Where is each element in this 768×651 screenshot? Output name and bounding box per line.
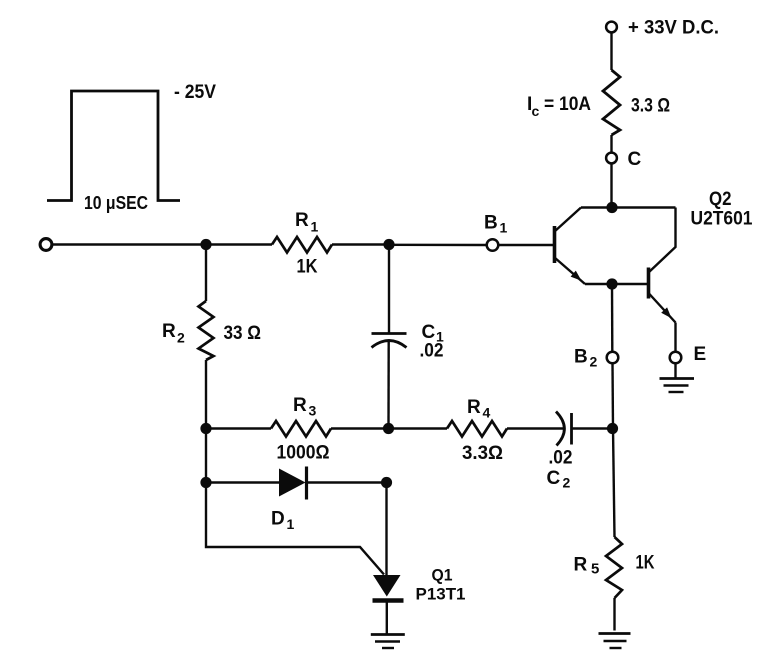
svg-text:1: 1 [287,516,295,532]
svg-text:33 Ω: 33 Ω [224,323,262,344]
wire R3 node down to diode row [205,429,207,483]
emitter arrow 1 [571,271,582,281]
wire C2 to node E2 [573,427,609,429]
ground (emitter) [660,379,695,393]
label C1 [420,322,445,362]
thyristor Q1 [373,575,404,634]
svg-text:3: 3 [309,403,317,419]
collector line 2 [649,208,676,273]
label D1 [271,509,295,533]
svg-text:4: 4 [483,405,491,421]
node G (diode row left) [200,477,211,488]
svg-text:R: R [574,555,588,576]
svg-text:E: E [694,344,707,365]
node D (emitter1/base2/B2) [606,278,617,289]
wire B2 to node E2 [611,364,614,429]
emitter arrow 2 [661,307,671,318]
terminal B2 [607,352,619,364]
svg-text:C: C [628,149,642,170]
svg-text:D: D [271,509,285,530]
base bar 1 [553,226,557,263]
wire 33V to resistor [610,33,612,71]
wire E to ground [674,364,676,379]
wire emitter1 to base2 [585,283,648,286]
resistor R5 [606,429,622,631]
node A [200,239,211,250]
wire C to collector node [610,164,612,208]
svg-text:Q1: Q1 [432,566,453,585]
label R5 [574,553,655,578]
svg-text:B: B [574,347,588,368]
node H (diode row right) [381,477,392,488]
wire diode node to Q1 anode [385,483,387,576]
svg-text:3.3 Ω: 3.3 Ω [631,96,670,117]
capacitor C2 [556,412,572,446]
terminal C [606,153,617,164]
wire node D to B2 [611,284,614,352]
svg-text:C: C [547,468,561,489]
svg-text:1K: 1K [297,257,318,278]
node F (R3/C1 junction) [383,423,394,434]
resistor 3.3 ohm (collector) [603,70,620,135]
svg-text:2: 2 [177,330,185,346]
svg-text:2: 2 [590,354,598,370]
svg-text:R: R [467,397,481,418]
node C-top (collector node) [606,202,617,213]
label B2 [574,347,598,370]
label R2 [162,321,261,346]
collector line 1 [555,208,582,232]
resistor R4 [389,421,564,437]
transistor Q2 [555,208,676,323]
diode D1 [206,467,387,500]
svg-text:3.3Ω: 3.3Ω [462,443,503,464]
wire node B to B1 [389,244,487,247]
svg-text:R: R [295,210,309,231]
svg-text:B: B [484,213,498,234]
svg-text:= 10A: = 10A [544,94,591,115]
svg-text:U2T601: U2T601 [691,209,753,230]
svg-text:Q2: Q2 [709,189,732,210]
terminal E [670,352,682,364]
label Ic = 10A [527,94,591,119]
ground (Q1) [371,635,405,649]
terminal B1 [487,239,499,251]
svg-text:- 25V: - 25V [174,82,216,103]
svg-text:R: R [293,395,307,416]
capacitor C1 [372,245,407,429]
wire resistor to C terminal [610,135,612,153]
label Q2 [691,189,753,230]
svg-text:1: 1 [500,220,508,236]
wire B1 to Q2 base [499,244,554,246]
svg-text:1: 1 [311,219,319,235]
node B [383,239,394,250]
svg-text:.02: .02 [549,448,573,469]
node E2 (C2/B2/R5 junction) [607,423,618,434]
label R3 [277,395,330,464]
svg-text:.02: .02 [420,341,444,362]
label B1 [484,213,508,236]
base bar 2 [647,268,651,299]
svg-text:c: c [532,103,540,119]
emitter line 2 [649,293,676,323]
+33V terminal [606,22,617,33]
svg-text:P13T1: P13T1 [416,585,466,604]
ground (R5) [599,634,631,649]
resistor R2 [199,245,214,429]
resistor R3 [206,421,389,437]
input terminal [40,239,52,251]
label R1 [295,210,319,278]
emitter line 1 [555,258,586,285]
svg-text:5: 5 [591,561,599,578]
svg-text:10 μSEC: 10 μSEC [84,193,148,213]
svg-text:1K: 1K [636,553,655,574]
svg-text:1000Ω: 1000Ω [277,443,330,464]
top collector wire [581,206,676,208]
pulse waveform [47,91,180,201]
wire input to node A [53,243,207,245]
svg-text:2: 2 [563,475,571,491]
svg-text:R: R [162,321,176,342]
resistor R1 [206,237,389,253]
svg-text:+ 33V D.C.: + 33V D.C. [628,18,719,39]
label C2 [547,448,573,491]
label R4 [462,397,503,464]
wire Q2 emitter to E terminal [674,323,676,352]
wire gate loop (left, down, right, diagonal to Q1) [206,483,384,575]
label Q1 / P13T1 [416,566,466,604]
node E1 (R2/R3 junction) [200,423,211,434]
